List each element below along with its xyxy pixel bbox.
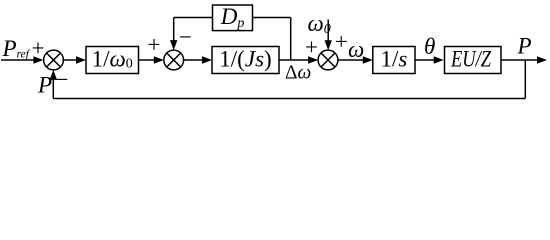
- wire S3 to block 1/s: [338, 59, 364, 61]
- wire Dp feedback: tap on main line up: [290, 18, 292, 61]
- node input arrow into S1: [33, 56, 43, 63]
- svg-text:−: −: [56, 67, 69, 92]
- svg-text:P: P: [37, 72, 52, 97]
- summing junction S1: [44, 50, 64, 70]
- svg-text:Δω: Δω: [285, 62, 311, 83]
- svg-text:−: −: [179, 24, 192, 49]
- wire Dp feedback horizontal left segment: [174, 17, 213, 19]
- wire P feedback up into S1: [52, 79, 54, 99]
- svg-text:+: +: [335, 29, 348, 54]
- wire S2 to block 1/(Js): [184, 59, 203, 61]
- block 1/w0: [86, 47, 139, 74]
- svg-text:ω: ω: [348, 37, 364, 62]
- summing junction S2: [164, 50, 184, 70]
- svg-text:EU/Z: EU/Z: [450, 47, 491, 72]
- wire w0 input down into S3: [327, 20, 329, 42]
- svg-text:P: P: [517, 34, 532, 59]
- block 1/(Js): [212, 47, 279, 74]
- wire block 1/w0 to summing junction S2: [139, 59, 155, 61]
- block 1/s: [373, 47, 415, 74]
- wire P feedback bottom: [53, 98, 525, 100]
- wire Dp feedback down into S2: [173, 18, 175, 42]
- wire P feedback branch down: [524, 60, 526, 99]
- svg-text:θ: θ: [424, 34, 435, 59]
- wire block 1/s to block EU/Z: [415, 59, 435, 61]
- wire input Pref to summing junction S1: [1, 59, 34, 61]
- wire output P: [501, 59, 538, 61]
- wire Dp feedback horizontal right segment: [253, 17, 291, 19]
- wire block 1/(Js) to summing junction S3: [279, 59, 309, 61]
- svg-text:+: +: [32, 35, 45, 60]
- block EU/Z: [445, 47, 502, 74]
- wire S1 to block 1/w0: [63, 59, 77, 61]
- svg-text:1/s: 1/s: [380, 47, 407, 72]
- block Dp: [213, 5, 253, 31]
- svg-text:+: +: [148, 32, 161, 57]
- svg-text:+: +: [305, 35, 318, 60]
- svg-text:1/(Js): 1/(Js): [219, 47, 271, 72]
- summing junction S3: [318, 50, 338, 70]
